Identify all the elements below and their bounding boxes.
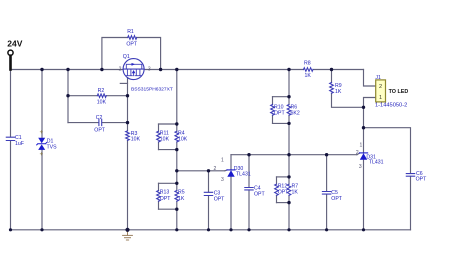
node dots divider — [175, 122, 178, 125]
svg-text:10K: 10K — [131, 136, 141, 142]
svg-text:6K2: 6K2 — [291, 110, 300, 116]
resistor R3 — [126, 131, 130, 141]
resistor R8 — [304, 68, 313, 72]
svg-text:BSS315PH6327XT: BSS315PH6327XT — [131, 87, 173, 93]
wire C3 branch upper — [208, 171, 210, 192]
svg-text:OPT: OPT — [274, 110, 285, 116]
wire branch to C6 — [364, 128, 411, 174]
regulator D31 TL431 — [359, 153, 367, 160]
wire top rail Q1 drain to R8 — [144, 69, 303, 71]
svg-text:R4: R4 — [178, 131, 185, 137]
svg-text:OPT: OPT — [331, 196, 342, 202]
svg-text:2: 2 — [379, 84, 382, 90]
svg-text:10K: 10K — [160, 137, 170, 143]
wire R12 R7 top bar — [277, 176, 290, 178]
svg-text:2: 2 — [356, 150, 359, 156]
svg-text:Q1: Q1 — [123, 54, 130, 60]
svg-text:TL431: TL431 — [369, 160, 384, 166]
wire C3 branch lower — [208, 196, 210, 230]
svg-text:1: 1 — [221, 157, 224, 163]
svg-text:10K: 10K — [97, 100, 107, 106]
svg-text:OPT: OPT — [278, 190, 289, 196]
svg-text:R8: R8 — [304, 61, 311, 67]
D1 pin marks — [40, 131, 42, 155]
svg-text:R13: R13 — [160, 190, 170, 196]
svg-text:OPT: OPT — [126, 42, 137, 48]
capacitor C6 — [406, 174, 414, 177]
svg-text:10K: 10K — [178, 137, 188, 143]
24V input terminal — [8, 50, 13, 69]
svg-text:TL431: TL431 — [236, 172, 251, 178]
wire C2 row left — [68, 122, 99, 124]
connector J1 — [376, 80, 386, 102]
wire R1 loop right riser — [137, 38, 161, 70]
svg-text:R1: R1 — [127, 29, 134, 35]
wire gate trunk below R3 to rail — [127, 140, 129, 229]
wire mid net D30 to D31 — [231, 154, 357, 156]
svg-text:OPT: OPT — [94, 128, 105, 134]
regulator D30 TL431 — [227, 170, 235, 177]
capacitor C4 — [245, 188, 253, 190]
node dots gate net — [66, 94, 69, 97]
resistor R11 — [157, 131, 161, 142]
wire R10 left branch lower — [272, 115, 274, 123]
wire R7 branch upper — [288, 177, 290, 184]
wire C4 branch lower — [248, 190, 250, 230]
svg-text:3: 3 — [221, 177, 224, 183]
svg-text:R11: R11 — [160, 131, 169, 137]
wire D31 ref diagonal — [357, 153, 360, 155]
svg-text:24V: 24V — [7, 38, 22, 48]
resistor R10 — [271, 105, 275, 116]
wire R9 bottom to J1 pin1 node — [332, 93, 364, 107]
wire top rail left of Q1 — [11, 69, 124, 71]
resistor R2 — [97, 94, 106, 98]
wire R7 trunk to rail — [288, 195, 290, 229]
wire R11 left branch upper — [158, 124, 160, 131]
capacitor C2 — [99, 120, 102, 126]
node dots J1 D31 — [362, 106, 365, 109]
svg-text:C2: C2 — [96, 115, 103, 121]
wire R1 loop left riser — [102, 38, 128, 70]
wire R2 C2 left branch — [67, 70, 69, 123]
resistor R12 — [275, 184, 279, 195]
node dots bottom rail — [9, 228, 12, 231]
capacitor C1 — [6, 137, 14, 140]
svg-text:2: 2 — [119, 67, 122, 73]
resistor R4 — [175, 131, 179, 142]
wire R5 branch upper — [176, 183, 178, 190]
wire D1 branch upper — [41, 70, 43, 138]
wire trunk R4 to R13 bar — [176, 142, 178, 183]
svg-text:1uF: 1uF — [15, 141, 24, 147]
wire C5 branch lower — [326, 194, 328, 230]
svg-text:TO LED: TO LED — [389, 89, 409, 95]
node dots R10 R6 R12 R7 — [287, 95, 290, 98]
svg-text:1K: 1K — [178, 196, 185, 202]
wire D30 anode to rail — [230, 177, 232, 230]
svg-text:1: 1 — [360, 143, 363, 149]
diode D1 TVS — [38, 138, 45, 150]
wire bottom ground rail — [11, 229, 411, 231]
wire R10 R6 top bar — [273, 96, 290, 98]
wire D30 cathode riser — [230, 155, 232, 170]
wire R12 R7 bottom bar — [277, 202, 290, 204]
wire R13 left branch upper — [158, 183, 160, 190]
wire R11 left branch lower — [158, 142, 160, 150]
wire R10 R6 bottom bar — [273, 122, 290, 124]
wire C6 lower — [410, 176, 412, 229]
wire R11 R4 trunk from top rail — [176, 70, 178, 132]
wire R2 row left — [68, 95, 97, 97]
wire C5 branch upper — [326, 155, 328, 192]
wire divider node to D30 ref — [177, 170, 225, 172]
wire Q1 gate tick — [120, 82, 127, 84]
svg-text:R9: R9 — [335, 83, 342, 89]
resistor R5 — [175, 191, 179, 202]
wire Q1 gate trunk upper — [127, 78, 129, 131]
wire R13 left branch lower — [158, 201, 160, 209]
wire D31 anode to rail — [363, 160, 365, 230]
node dots mid net — [247, 153, 250, 156]
svg-text:TVS: TVS — [47, 144, 58, 150]
wire R10 R6 trunk from top rail — [288, 70, 290, 105]
svg-text:OPT: OPT — [416, 176, 427, 182]
wire R12 left branch lower — [276, 195, 278, 202]
resistor R7 — [287, 184, 291, 195]
wire left rail above C1 — [10, 70, 12, 138]
svg-text:1-1445050-2: 1-1445050-2 — [375, 102, 407, 108]
resistor R13 — [157, 191, 161, 202]
node dots top rail — [40, 68, 43, 71]
svg-text:J1: J1 — [375, 75, 381, 81]
svg-text:R5: R5 — [178, 190, 185, 196]
wire C4 branch upper — [248, 155, 250, 188]
resistor R6 — [287, 105, 291, 116]
resistor R1 — [128, 36, 137, 40]
svg-text:OPT: OPT — [214, 196, 225, 202]
wire R5 trunk to rail — [176, 201, 178, 230]
wire J1 pin2 drop — [364, 70, 376, 87]
transistor Q1 — [123, 59, 144, 80]
wire left rail below C1 — [10, 141, 12, 230]
svg-text:2: 2 — [214, 166, 217, 172]
capacitor C3 — [204, 192, 212, 195]
wire R12 left branch upper — [276, 177, 278, 184]
wire R13 R5 top bar — [159, 182, 177, 184]
resistor R9 — [330, 83, 334, 94]
wire D30 ref diagonal — [225, 169, 227, 172]
svg-text:OPT: OPT — [254, 192, 265, 198]
svg-text:R2: R2 — [98, 88, 105, 94]
svg-text:3: 3 — [148, 67, 151, 73]
svg-text:3: 3 — [359, 164, 362, 170]
wire R10 left branch upper — [272, 97, 274, 105]
wire R6 trunk to mid net — [288, 115, 290, 177]
wire D1 branch lower — [41, 150, 43, 230]
svg-text:OPT: OPT — [160, 196, 171, 202]
wire R11 R4 top bar — [159, 123, 177, 125]
wire R2 row right — [106, 95, 127, 97]
wire C2 row right — [102, 122, 127, 124]
wire J1 pin1 stub — [364, 98, 376, 108]
wire top rail R8 to J1 corner — [313, 69, 364, 71]
capacitor C5 — [322, 192, 330, 195]
wire R13 R5 bottom bar — [159, 208, 177, 210]
svg-text:1: 1 — [379, 95, 382, 101]
wire R11 R4 bottom bar — [159, 149, 177, 151]
svg-text:1K: 1K — [305, 73, 312, 79]
wire R9 branch upper — [331, 70, 333, 83]
svg-text:1K: 1K — [292, 190, 299, 196]
ground — [123, 230, 133, 240]
wire D31 cathode riser — [363, 107, 365, 153]
svg-text:1K: 1K — [335, 89, 342, 95]
